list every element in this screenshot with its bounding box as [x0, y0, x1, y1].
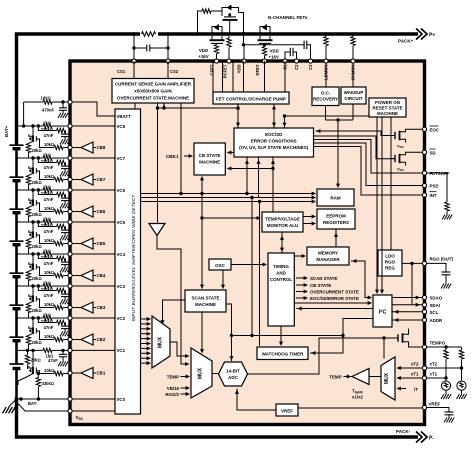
svg-text:CS2: CS2	[170, 69, 179, 74]
capacitor 470nF	[59, 107, 67, 109]
svg-text:ADDR: ADDR	[430, 318, 444, 323]
block memory manager	[307, 247, 349, 265]
block EEPROM registers	[317, 209, 355, 229]
capacitor RGO external	[427, 263, 446, 271]
svg-text:SCAN STATE: SCAN STATE	[191, 296, 219, 301]
mux 2	[191, 348, 212, 398]
svg-text:RGO/2: RGO/2	[165, 392, 179, 397]
transistor PCFET (precharge FET)	[222, 5, 244, 45]
wire EOC/SD bottom to row A	[246, 157, 248, 194]
block watchdog timer	[257, 347, 308, 360]
svg-text:(OV, UV, SLP STATE MACHINES): (OV, UV, SLP STATE MACHINES)	[239, 145, 309, 150]
ADC 14-bit hexagon	[219, 362, 248, 386]
ground	[58, 113, 68, 118]
pin VC4	[70, 253, 115, 255]
svg-text:SD: SD	[430, 150, 436, 155]
pin SDAO	[422, 295, 426, 299]
svg-text:RESET STATE: RESET STATE	[372, 106, 402, 111]
svg-text:EOC/SD: EOC/SD	[265, 132, 283, 137]
wire xT2 to second thermistor	[427, 367, 462, 369]
svg-text:VC4: VC4	[117, 252, 126, 257]
wire scan to mux2	[201, 312, 203, 353]
battery cell 1 plates	[10, 363, 24, 365]
block timing and control	[268, 253, 294, 326]
resistor pullup xT2	[461, 347, 463, 350]
svg-text:DFET: DFET	[255, 64, 260, 75]
svg-text:TGAIN: TGAIN	[352, 389, 363, 395]
block LDO RGO REG	[378, 250, 402, 276]
pin VC7	[70, 157, 115, 159]
pin CB6 buffer	[70, 211, 81, 213]
thermistor 2	[457, 381, 466, 390]
wire CS box to bus row A	[180, 103, 182, 194]
svg-text:VDD: VDD	[199, 48, 208, 53]
transistor TEMPO output FET	[392, 329, 422, 348]
pin INT	[422, 193, 426, 197]
svg-text:C3: C3	[308, 64, 313, 70]
svg-text:CB6: CB6	[97, 209, 106, 214]
svg-text:VC0: VC0	[117, 397, 126, 402]
wire OC wakeup join	[325, 106, 327, 121]
cell 3 network	[10, 280, 71, 318]
svg-text:AND: AND	[276, 271, 286, 276]
svg-text:VC3: VC3	[117, 284, 126, 289]
resistor PCFET gate pulldown	[228, 36, 230, 38]
battery stack rail segments	[15, 149, 18, 400]
svg-text:+16V: +16V	[269, 55, 279, 60]
capacitor CS filter	[134, 47, 146, 49]
transistor EOC output FET	[390, 129, 422, 142]
svg-text:CB8:1: CB8:1	[166, 154, 179, 159]
wire FET control pin stubs	[213, 61, 285, 92]
wire EOC/SD bottom to temp/voltage top	[272, 157, 274, 212]
svg-text:14-BIT: 14-BIT	[226, 369, 240, 374]
svg-text:OVERCURRENT STATE MACHINE: OVERCURRENT STATE MACHINE	[117, 96, 189, 101]
cell 6 network	[10, 184, 71, 222]
wire bus rows to RAM	[141, 193, 316, 195]
wire temp/voltage to timing	[281, 232, 283, 253]
IC body (battery monitor)	[70, 61, 425, 425]
PACK- bus thick wire	[17, 397, 419, 437]
svg-text:xT2: xT2	[411, 362, 419, 367]
wire mux1 to mux2	[170, 342, 189, 356]
pin CB7 buffer	[70, 179, 81, 181]
ground	[444, 418, 454, 423]
block OC recovery	[312, 87, 339, 106]
svg-text:CB2: CB2	[97, 337, 106, 342]
svg-text:INT: INT	[430, 193, 437, 198]
wire timing to watchdog	[280, 326, 282, 345]
block I2C	[373, 295, 392, 327]
svg-text:330kΩ: 330kΩ	[42, 381, 55, 386]
svg-text:CFET: CFET	[210, 64, 215, 75]
wire CB state to scan state	[201, 177, 203, 289]
pin VC1	[70, 349, 115, 351]
wire timing I2C links	[294, 302, 371, 304]
pins CFET PCFET VDD DFET	[214, 59, 218, 63]
capacitor 47nF cell1	[59, 353, 67, 355]
svg-text:VSS: VSS	[76, 415, 83, 421]
svg-text:C2: C2	[294, 64, 299, 70]
wire scan to ADC rail	[226, 304, 232, 361]
svg-text:xT1: xT1	[430, 372, 438, 377]
pin VREF	[422, 405, 426, 409]
svg-text:VREF: VREF	[281, 408, 293, 413]
svg-text:VDD: VDD	[237, 65, 242, 74]
resistor precharge	[202, 9, 211, 13]
svg-text:TEMP: TEMP	[167, 374, 179, 379]
block RAM	[317, 189, 354, 206]
capacitor VREF external	[427, 408, 449, 412]
wire xT2 xT1 to mux3	[397, 367, 422, 369]
svg-text:EOC: EOC	[430, 127, 440, 132]
wire memory manager to I2C	[351, 261, 371, 298]
svg-text:CB7: CB7	[97, 177, 106, 182]
svg-text:VREF: VREF	[429, 402, 441, 407]
svg-text:CB4: CB4	[97, 273, 106, 278]
svg-text:VSS: VSS	[397, 167, 404, 173]
svg-text:SCL: SCL	[430, 310, 439, 315]
svg-text:WAKEUP: WAKEUP	[344, 90, 364, 95]
svg-text:I2C: I2C	[379, 309, 387, 316]
pin SDAI	[422, 303, 426, 307]
svg-text:CURRENT SENSE GAIN AMPLIFIER: CURRENT SENSE GAIN AMPLIFIER	[115, 82, 192, 87]
svg-text:PSD: PSD	[430, 184, 439, 189]
wire LDO to RGO pin	[402, 262, 422, 264]
wire EOC/SD to CB state	[227, 152, 234, 154]
pin VC3	[70, 285, 115, 287]
pin CB4 buffer	[70, 275, 81, 277]
svg-text:N-CHANNEL FETs: N-CHANNEL FETs	[268, 15, 308, 20]
svg-text:FET CONTROLS/CHARGE PUMP: FET CONTROLS/CHARGE PUMP	[216, 96, 286, 101]
PACK+ bus thick wire	[17, 34, 141, 145]
wire VC0 row	[17, 398, 71, 400]
svg-text:PCFET: PCFET	[222, 64, 227, 78]
cell 1 (bottom) network	[10, 348, 71, 399]
svg-text:xT1: xT1	[411, 372, 419, 377]
pin CB8 buffer	[70, 147, 81, 149]
capacitor C1-C2	[285, 52, 290, 61]
transistor DFET (left main FET)	[210, 24, 225, 44]
svg-text:INPUT BUFFERS/LEVEL SHIFTER/OP: INPUT BUFFERS/LEVEL SHIFTER/OPEN WIRE DE…	[131, 194, 136, 322]
ground	[58, 361, 68, 366]
resistor 20k cell1	[27, 350, 29, 355]
svg-text:TIMING: TIMING	[273, 264, 289, 269]
pin CS1	[132, 59, 136, 63]
wire VDD node	[244, 44, 304, 46]
pin CB5 buffer	[70, 243, 81, 245]
svg-text:+16V: +16V	[198, 54, 208, 59]
svg-text:SDAO: SDAO	[430, 296, 443, 301]
block temp voltage monitor ALU	[262, 212, 303, 232]
svg-text:ERROR CONDITIONS: ERROR CONDITIONS	[251, 139, 297, 144]
wire arrow into CS box bottom	[163, 103, 165, 108]
wire EEPROM to memory manager	[335, 229, 337, 247]
wire EOC gate fan	[316, 131, 395, 136]
wire VSS external	[17, 402, 71, 411]
wire cap to ground	[62, 110, 64, 113]
svg-text:CS1: CS1	[117, 69, 126, 74]
wire pin 244	[243, 45, 245, 61]
cell 8 network	[10, 120, 71, 158]
capacitor C2-C3 top	[303, 41, 305, 49]
svg-text:RGO: RGO	[385, 260, 396, 265]
wire EOC/SD bottom to row B	[258, 157, 260, 198]
balancing FET Q1	[18, 350, 36, 385]
wire VREF to pin	[298, 407, 422, 409]
pin PSD	[422, 183, 426, 187]
wire 47nF tap	[61, 349, 64, 352]
sense resistor on bus	[142, 32, 156, 37]
block current sense gain amplifier	[112, 79, 194, 104]
wire mux3 to tgain	[369, 376, 381, 378]
svg-text:BAT+: BAT+	[4, 125, 9, 137]
wire cross link row 335	[232, 335, 344, 337]
svg-text:VBATT: VBATT	[117, 114, 132, 119]
svg-text:CB STATE: CB STATE	[199, 153, 221, 158]
wire CB1 to pin	[63, 373, 70, 375]
pin CB1 buffer	[70, 372, 81, 374]
pin CB3 buffer	[70, 307, 81, 309]
pin xT2	[422, 366, 426, 370]
pin VC8	[70, 125, 115, 127]
svg-text:WATCHDOG TIMER: WATCHDOG TIMER	[262, 352, 304, 357]
arrowheads internal	[162, 104, 166, 108]
wire to temp/voltage left	[202, 217, 260, 219]
wire POR to I2C and LDO	[376, 117, 378, 293]
wire iT stub	[397, 388, 406, 390]
svg-text:PACK+: PACK+	[398, 39, 414, 44]
cell 4 network	[10, 248, 71, 286]
svg-text:100Ω: 100Ω	[41, 96, 51, 101]
svg-text:VC1: VC1	[117, 348, 126, 353]
svg-text:O.C.: O.C.	[321, 91, 330, 96]
svg-text:iT: iT	[414, 387, 418, 392]
svg-text:OSC: OSC	[215, 263, 226, 268]
pin RGO	[422, 261, 426, 265]
svg-text:CIRCUIT: CIRCUIT	[344, 96, 362, 101]
wire ADC to tempo fet gate	[248, 338, 399, 374]
resistor FETSOFF pulldown external	[427, 173, 447, 202]
mux1 input arrows	[141, 319, 150, 363]
svg-text:CB5: CB5	[97, 241, 106, 246]
wire tgain to temp	[344, 376, 353, 378]
wire row B down to adc rail link	[251, 198, 253, 336]
wire RGO I2C pullup rail	[411, 263, 413, 304]
svg-text:BAT-: BAT-	[28, 401, 38, 406]
wire mux3 top	[383, 338, 385, 359]
cell 7 network	[10, 152, 71, 190]
svg-text:MUX: MUX	[158, 336, 164, 348]
svg-text:P+: P+	[429, 32, 435, 38]
svg-text:VDD: VDD	[270, 49, 279, 54]
svg-text:CB1: CB1	[97, 371, 106, 376]
pin CS2	[166, 59, 170, 63]
svg-text:MEMORY: MEMORY	[318, 251, 338, 256]
thermistor 1	[441, 381, 450, 390]
wire tap to VC8	[23, 102, 25, 126]
svg-text:MACHINE: MACHINE	[199, 160, 220, 165]
resistor 10k CB1	[54, 371, 63, 375]
wire ADC to VREF	[237, 389, 276, 411]
BAT- node and wires	[3, 397, 71, 413]
block CB state machine	[194, 143, 225, 175]
svg-text:RECOVERY: RECOVERY	[313, 97, 338, 102]
ground BAT-	[3, 407, 16, 413]
svg-text:POWER ON: POWER ON	[375, 100, 400, 105]
pin VBATT	[70, 102, 115, 116]
resistor LDMON pullup	[324, 32, 327, 35]
svg-text:EEPROM: EEPROM	[326, 214, 346, 219]
wire CHMON to wakeup box	[352, 63, 354, 87]
pin TEMPO	[422, 345, 426, 349]
wire timing to memory manager	[294, 255, 305, 257]
pin VC6	[70, 189, 115, 191]
svg-text:SCAN STATE: SCAN STATE	[310, 276, 337, 281]
resistor 100ohm	[43, 100, 52, 104]
wire gate to CB1 row	[36, 371, 54, 374]
svg-text:CB8: CB8	[97, 145, 106, 150]
pin CB2 buffer	[70, 339, 81, 341]
block wakeup circuit	[341, 87, 366, 104]
svg-text:ADC: ADC	[228, 375, 238, 380]
wire POR to EOC/SD	[285, 115, 370, 117]
pin VC5	[70, 221, 115, 223]
wire to 470nF	[62, 102, 64, 108]
PACK+ arrow to P+	[416, 29, 427, 40]
ground	[442, 215, 452, 220]
svg-text:20kΩ: 20kΩ	[31, 358, 41, 363]
wire VBATT row	[24, 101, 43, 103]
svg-text:CB3: CB3	[97, 305, 106, 310]
wire I2C to watchdog	[310, 319, 373, 354]
block scan state machine	[185, 290, 226, 312]
pin VC2	[70, 317, 115, 319]
wire CS box to node row 108	[134, 103, 136, 109]
state output arrows from timing	[296, 278, 306, 298]
wire VC1 tap row	[17, 349, 44, 351]
wire CB8:1 input	[184, 155, 192, 157]
pin FETSOFF	[422, 171, 426, 175]
VBATT input filter	[22, 96, 70, 128]
resistor DFET gate	[214, 45, 218, 54]
pin VC0	[70, 398, 115, 400]
wire cap to ground	[62, 357, 64, 362]
svg-text:470nF: 470nF	[42, 107, 55, 112]
ground	[441, 284, 451, 289]
pin SCL	[422, 310, 426, 314]
pin xT1	[422, 376, 426, 380]
input buffer block	[115, 109, 141, 414]
cell 5 network	[10, 216, 71, 254]
wire CS2 sense tap	[167, 34, 169, 61]
wire mux2 to ADC	[212, 373, 219, 375]
wire row C down to watchdog top	[259, 202, 261, 347]
svg-text:VSS: VSS	[397, 144, 404, 150]
node cap tap	[61, 100, 64, 103]
svg-text:x5/x50/x500 GAIN: x5/x50/x500 GAIN	[134, 89, 172, 94]
wire I2C to pins	[392, 297, 422, 299]
wire CS1 sense tap	[133, 34, 135, 61]
wire LDMON to OC box	[325, 63, 327, 87]
pin ADDR	[422, 318, 426, 322]
resistor CFET gate	[262, 47, 266, 56]
svg-text:REGISTERS: REGISTERS	[323, 220, 349, 225]
svg-text:REG: REG	[385, 266, 395, 271]
cell 2 network	[10, 312, 71, 350]
svg-text:SDAI: SDAI	[430, 303, 441, 308]
resistor CHMON pullup	[351, 32, 354, 35]
wire FETCTRL to EOC/SD left	[237, 104, 239, 128]
svg-text:47nF: 47nF	[48, 358, 58, 363]
svg-text:TEMPO: TEMPO	[430, 341, 446, 346]
svg-text:TEMP/VOLTAGE: TEMP/VOLTAGE	[265, 217, 300, 222]
transistor SD output FET	[390, 152, 422, 165]
junction dots internal	[156, 106, 159, 109]
wire scan to mux1	[163, 300, 186, 323]
block EOC/SD error conditions	[234, 128, 314, 157]
transistor CFET (right main FET)	[258, 24, 273, 45]
wire precharge branch	[198, 11, 203, 34]
svg-text:MACHINE: MACHINE	[377, 111, 398, 116]
svg-text:TEMP: TEMP	[329, 375, 341, 380]
block power on reset state machine	[369, 98, 406, 117]
thermistor network external	[427, 347, 464, 381]
svg-text:x1/x2: x1/x2	[352, 395, 364, 400]
resistor pullup xT1	[445, 347, 447, 350]
svg-text:MUX: MUX	[198, 367, 204, 379]
block OSC	[209, 259, 231, 270]
svg-text:PACK-: PACK-	[396, 429, 411, 434]
wire buffer triangle to mux2	[157, 236, 189, 365]
block VREF	[276, 404, 298, 416]
svg-text:MUX: MUX	[384, 372, 390, 384]
svg-text:EOC/SD/ERROR STATE: EOC/SD/ERROR STATE	[310, 296, 359, 301]
mux 3 temp	[381, 357, 395, 400]
pin VSS	[70, 410, 115, 412]
block FET controls charge pump	[213, 92, 289, 104]
svg-text:RAM: RAM	[330, 196, 340, 201]
buffer triangle current sense	[149, 224, 165, 236]
svg-text:VB/16: VB/16	[167, 386, 180, 391]
pin EOC	[422, 127, 426, 131]
wire TEMPO rail	[427, 346, 462, 348]
wire OSC to scan	[222, 270, 224, 289]
svg-text:RGO (OUT): RGO (OUT)	[430, 257, 454, 262]
svg-text:CB STATE: CB STATE	[310, 283, 331, 288]
svg-text:MONITOR ALU: MONITOR ALU	[267, 223, 299, 228]
svg-text:CONTROL: CONTROL	[270, 277, 292, 282]
wire OSC to timing	[231, 264, 266, 266]
svg-text:10kΩ: 10kΩ	[44, 368, 54, 373]
svg-text:VC2: VC2	[117, 316, 126, 321]
resistor 1k VC1	[43, 348, 52, 352]
wire to ground	[9, 399, 17, 407]
buffer triangle temp TGAIN	[352, 369, 369, 385]
mux 1	[152, 316, 170, 368]
PACK- arrow to P-	[416, 432, 427, 443]
svg-text:VC7: VC7	[117, 156, 126, 161]
wire xT1 to first thermistor	[427, 377, 446, 379]
svg-text:VC8: VC8	[117, 124, 126, 129]
svg-text:P-: P-	[429, 435, 434, 441]
resistor 330k cell1 vertical	[37, 372, 40, 375]
wire temp/voltage to EEPROM	[303, 216, 315, 218]
svg-text:xT2: xT2	[430, 362, 438, 367]
svg-text:LDO: LDO	[385, 254, 395, 259]
svg-text:OVERCURRENT STATE: OVERCURRENT STATE	[310, 290, 359, 295]
svg-text:MACHINE: MACHINE	[195, 302, 216, 307]
